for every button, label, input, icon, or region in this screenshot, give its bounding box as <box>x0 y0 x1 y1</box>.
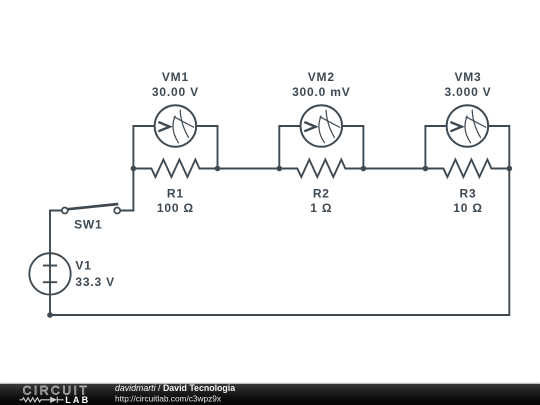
wire: node between R1 and R2 <box>218 168 280 170</box>
voltmeter VM1 <box>155 105 197 147</box>
resistor R3 <box>425 160 509 178</box>
wire: VM1 loop right <box>196 126 218 169</box>
svg-text:R2: R2 <box>313 186 330 200</box>
svg-text:300.0 mV: 300.0 mV <box>292 85 350 99</box>
junction node R2 right <box>361 166 367 172</box>
junction node R3 left <box>423 166 429 172</box>
svg-text:1 Ω: 1 Ω <box>310 201 332 215</box>
switch SW1 <box>62 204 120 214</box>
wire: right side down <box>50 169 509 316</box>
junction node R1 right <box>215 166 221 172</box>
voltage source V1 <box>29 253 70 294</box>
wire: switch left to source <box>50 211 62 254</box>
svg-text:R3: R3 <box>460 186 477 200</box>
resistor R2 <box>279 160 363 178</box>
svg-text:100 Ω: 100 Ω <box>157 201 194 215</box>
svg-text:V1: V1 <box>75 258 91 272</box>
voltmeter VM2 <box>301 105 343 147</box>
voltmeter VM3 <box>447 105 489 147</box>
wire: VM3 loop left <box>425 126 447 169</box>
svg-text:3.000 V: 3.000 V <box>445 85 492 99</box>
svg-text:VM1: VM1 <box>162 70 189 84</box>
svg-text:R1: R1 <box>167 186 184 200</box>
junction node R3 right <box>507 166 513 172</box>
svg-text:30.00 V: 30.00 V <box>152 85 199 99</box>
CircuitLab logo resistor-diode line <box>20 397 64 403</box>
CircuitLab logo diode triangle <box>50 397 57 403</box>
footer bar <box>0 384 540 405</box>
wire: VM2 loop left <box>279 126 301 169</box>
svg-text:33.3 V: 33.3 V <box>75 275 115 289</box>
wire: VM1 loop left (corner to circle) <box>133 126 155 169</box>
wire: VM3 loop right <box>488 126 509 169</box>
wire: left branch down to switch <box>120 169 133 211</box>
wire: source bottom <box>49 295 51 315</box>
junction node R1 left <box>131 166 137 172</box>
svg-text:SW1: SW1 <box>74 217 102 231</box>
wire: VM2 loop right <box>342 126 364 169</box>
svg-text:VM2: VM2 <box>308 70 335 84</box>
wire: node between R2 and R3 <box>363 168 425 170</box>
svg-text:10 Ω: 10 Ω <box>453 201 483 215</box>
junction node R2 left <box>277 166 283 172</box>
svg-text:VM3: VM3 <box>454 70 481 84</box>
resistor R1 <box>133 160 217 178</box>
junction node V1 bottom <box>47 312 53 318</box>
